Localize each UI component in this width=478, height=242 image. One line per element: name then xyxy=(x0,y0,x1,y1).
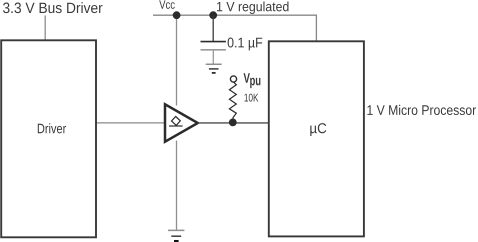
wire: buffer output to uC input xyxy=(198,122,269,124)
label 10K xyxy=(245,94,259,102)
microprocessor uC box xyxy=(269,41,364,236)
ground under buffer xyxy=(168,229,184,231)
wire: capacitor top lead xyxy=(212,15,214,42)
label 0.1 uF xyxy=(228,38,263,51)
wire: capacitor bottom lead xyxy=(212,50,214,65)
node: 1 V regulated junction dot xyxy=(209,11,217,19)
node: output junction dot xyxy=(229,119,237,127)
label 3.3 V Bus Driver xyxy=(3,2,103,13)
wire: buffer bottom down to ground xyxy=(176,141,178,231)
ground under capacitor xyxy=(206,63,222,65)
node: Vcc junction dot xyxy=(173,11,181,19)
leader line from 3.3 V Bus Driver label to driver box xyxy=(44,16,46,41)
open-drain diamond symbol xyxy=(172,117,181,126)
label 1 V Micro Processor xyxy=(367,105,476,115)
resistor R1 pullup zigzag xyxy=(229,82,236,121)
terminal Vpu open circle xyxy=(230,76,236,82)
wire: driver output to buffer input xyxy=(96,122,166,124)
label 1 V regulated xyxy=(217,2,289,14)
label Vpu xyxy=(244,73,250,83)
capacitor C1 bottom plate xyxy=(201,49,226,51)
wire: drop from top rail corner down to uC top edge xyxy=(315,15,317,41)
wire: top rail from Vcc to top-right corner xyxy=(153,14,317,16)
capacitor C1 0.1 uF top plate xyxy=(201,41,226,43)
label Driver xyxy=(38,123,66,133)
buffer U1 open-drain triangle xyxy=(165,104,198,141)
label Vcc xyxy=(159,0,175,8)
driver box xyxy=(1,40,96,237)
wire: Vcc node down to buffer top xyxy=(176,15,178,105)
label uC xyxy=(310,123,326,136)
